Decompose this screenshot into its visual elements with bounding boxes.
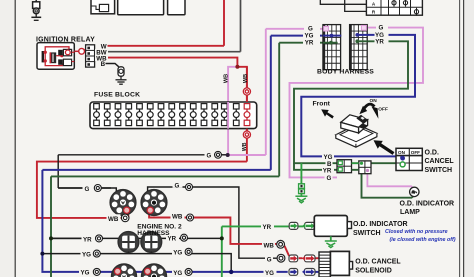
svg-text:O.D. CANCEL: O.D. CANCEL	[355, 259, 401, 266]
svg-text:BODY HARNESS: BODY HARNESS	[317, 69, 374, 76]
svg-text:G: G	[267, 256, 272, 263]
svg-text:YG: YG	[173, 270, 182, 277]
svg-text:O.D.: O.D.	[425, 150, 439, 157]
svg-text:SOLENOID: SOLENOID	[355, 268, 392, 275]
svg-text:YR: YR	[323, 168, 332, 175]
svg-text:YR: YR	[305, 40, 314, 47]
svg-text:YR: YR	[375, 38, 384, 45]
svg-text:G: G	[85, 186, 90, 193]
svg-text:G: G	[327, 175, 332, 182]
svg-text:HARNESS: HARNESS	[137, 230, 170, 237]
svg-text:FUSE BLOCK: FUSE BLOCK	[94, 91, 140, 98]
svg-text:G: G	[207, 153, 212, 159]
svg-text:G: G	[175, 182, 180, 189]
svg-text:WB: WB	[242, 142, 248, 151]
svg-text:LAMP: LAMP	[400, 209, 420, 216]
svg-text:SWITCH: SWITCH	[353, 230, 381, 237]
svg-text:YG: YG	[265, 270, 274, 277]
svg-text:O.D. INDICATOR: O.D. INDICATOR	[400, 201, 455, 208]
svg-text:CANCEL: CANCEL	[425, 158, 455, 165]
svg-text:WB: WB	[264, 243, 275, 250]
svg-text:YR: YR	[83, 236, 92, 243]
svg-text:YG: YG	[173, 250, 182, 257]
svg-text:(ie closed with engine off): (ie closed with engine off)	[390, 237, 456, 243]
svg-text:B: B	[101, 61, 106, 68]
svg-text:YG: YG	[82, 252, 91, 259]
svg-text:Closed with no pressure: Closed with no pressure	[385, 229, 448, 235]
svg-text:SWITCH: SWITCH	[425, 167, 453, 174]
svg-text:YR: YR	[263, 224, 272, 231]
svg-text:WB: WB	[108, 216, 119, 223]
svg-text:YG: YG	[81, 269, 90, 276]
svg-text:YG: YG	[305, 33, 314, 40]
svg-text:OFF: OFF	[411, 150, 420, 155]
svg-text:OFF: OFF	[378, 106, 388, 112]
svg-text:Front: Front	[313, 100, 331, 107]
svg-text:WB: WB	[243, 74, 249, 83]
svg-text:ON: ON	[398, 150, 406, 155]
svg-text:G: G	[308, 26, 313, 33]
svg-text:WB: WB	[172, 213, 183, 220]
svg-text:WB: WB	[224, 74, 230, 83]
svg-text:O.D. INDICATOR: O.D. INDICATOR	[353, 221, 408, 228]
